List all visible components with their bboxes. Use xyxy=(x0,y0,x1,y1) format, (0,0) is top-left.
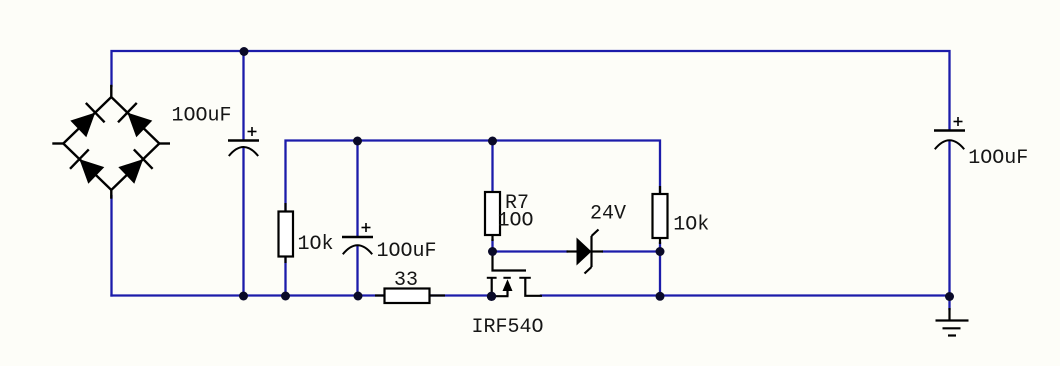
channel bar middle xyxy=(503,277,510,279)
drain drop xyxy=(525,278,542,296)
body diode arrow xyxy=(503,279,513,291)
node bottom rail / 10k left xyxy=(281,292,290,301)
source drop xyxy=(491,278,493,296)
svg-text:1Ok: 1Ok xyxy=(673,214,709,237)
wire R7 top xyxy=(491,141,493,193)
transistor Q1 IRF540 xyxy=(487,252,542,296)
node inner rail / R7 xyxy=(488,137,497,146)
ground xyxy=(936,308,969,336)
wire bridge bottom to rail xyxy=(110,196,112,296)
wire C2 top xyxy=(356,141,358,237)
svg-text:1OOuF: 1OOuF xyxy=(968,147,1028,170)
wire 10k left bottom xyxy=(284,257,286,296)
wire ground stub xyxy=(948,296,950,310)
resistor R 10k left xyxy=(279,212,294,257)
wire 10k right bottom xyxy=(659,243,661,296)
node bottom rail / C2 xyxy=(354,292,363,301)
bridge bottom pin stub xyxy=(110,190,112,198)
svg-text:1OOuF: 1OOuF xyxy=(377,240,437,263)
capacitor C2 100uF xyxy=(342,223,373,254)
channel bar right xyxy=(519,277,531,279)
svg-text:1Ok: 1Ok xyxy=(298,233,334,256)
node bottom rail / zener branch xyxy=(656,292,665,301)
gate lead xyxy=(493,252,527,271)
svg-text:1OOuF: 1OOuF xyxy=(172,105,232,128)
svg-text:IRF54O: IRF54O xyxy=(472,316,544,339)
capacitor C1 100uF xyxy=(228,127,259,156)
wire C3 bottom xyxy=(948,142,950,296)
bridge top pin stub xyxy=(110,86,112,97)
svg-text:33: 33 xyxy=(394,269,418,292)
bridge diode top-left xyxy=(69,103,105,139)
capacitor C3 100uF xyxy=(934,117,965,149)
resistor 33 xyxy=(375,294,445,296)
channel bar left xyxy=(487,277,497,279)
node top rail / C1 xyxy=(240,47,249,56)
wire inner rail xyxy=(286,141,661,213)
node gate / zener xyxy=(488,247,497,256)
svg-text:1OO: 1OO xyxy=(498,210,534,233)
bridge diode top-right xyxy=(118,103,154,139)
resistor R7 stub xyxy=(491,235,493,241)
node bottom rail / C3 ground xyxy=(945,292,954,301)
wire R7 bottom to gate node xyxy=(491,240,493,252)
wire C1 top xyxy=(242,51,244,140)
bridge diode bottom-left xyxy=(70,149,106,185)
node bottom rail / C1 xyxy=(239,292,248,301)
resistor R7 100 xyxy=(485,192,500,235)
resistor 10k left stubs xyxy=(284,203,286,263)
wire top rail xyxy=(112,51,950,130)
bridge diode bottom-right xyxy=(117,149,153,185)
wire bottom rail right xyxy=(541,294,950,296)
zener diode 24V xyxy=(567,230,604,274)
body diode stub xyxy=(506,291,508,296)
bridge ac pin right xyxy=(159,142,169,144)
wire bottom rail left xyxy=(112,294,492,296)
source body line xyxy=(492,295,509,297)
resistor 10k right xyxy=(653,194,668,238)
node bottom rail / mosfet source xyxy=(487,292,496,301)
node inner rail / C2 xyxy=(353,137,362,146)
bridge rectifier B1 xyxy=(54,86,169,198)
wire zener to node xyxy=(603,250,660,252)
bridge diamond edges xyxy=(63,97,159,190)
wire C1 bottom xyxy=(242,148,244,296)
bridge ac pin left xyxy=(54,142,64,144)
node zener / 10k right xyxy=(656,247,665,256)
svg-text:24V: 24V xyxy=(590,203,626,226)
resistor 10k right stubs xyxy=(659,186,661,244)
wire gate node to zener xyxy=(493,250,568,252)
wire C2 bottom xyxy=(356,246,358,296)
